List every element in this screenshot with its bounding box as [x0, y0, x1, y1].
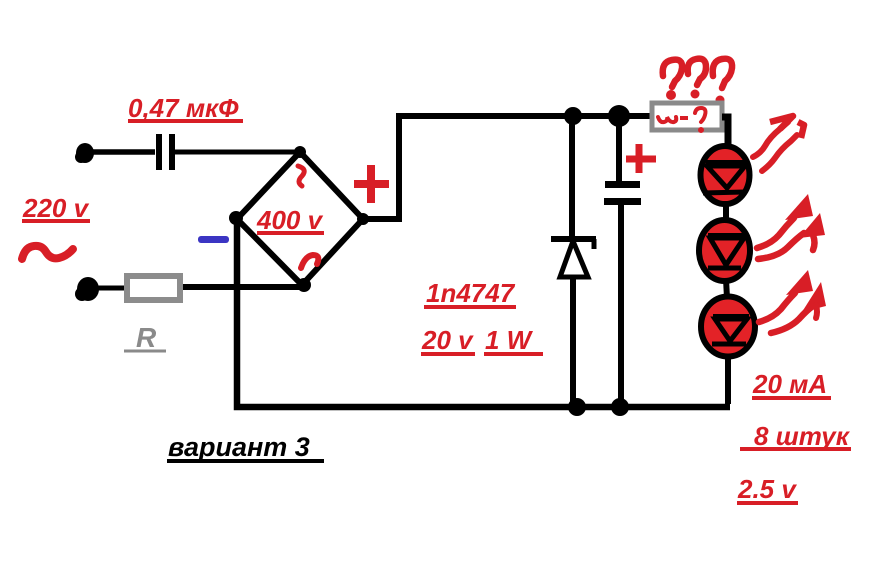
light arrows of D2	[757, 194, 825, 259]
junction node cap top	[608, 105, 630, 127]
svg-text:2.5 v: 2.5 v	[737, 474, 797, 504]
capacitor C2	[604, 118, 641, 406]
light arrows of D1	[753, 116, 804, 171]
svg-text:20 мА: 20 мА	[752, 369, 827, 399]
svg-text:1 W: 1 W	[485, 325, 534, 355]
svg-text:400 v: 400 v	[256, 205, 324, 235]
LED D1	[701, 146, 750, 204]
svg-text:220 v: 220 v	[22, 193, 90, 223]
wire D3 to bottom rail	[725, 355, 731, 404]
wire D1 to D2	[723, 202, 729, 222]
wire C1 to bridge top	[175, 150, 298, 155]
label ???	[663, 59, 732, 105]
zener diode 1n4747	[551, 118, 596, 406]
bridge corner node bottom	[297, 278, 311, 292]
light arrows of D3	[759, 270, 826, 333]
svg-text:0,47 мкФ: 0,47 мкФ	[128, 93, 239, 123]
wire terminal to C1	[86, 149, 155, 155]
label 220 v	[22, 193, 90, 223]
label 0,47 мкФ	[128, 93, 243, 123]
LED D3	[701, 297, 755, 357]
LED D2	[699, 220, 750, 281]
svg-text:R: R	[136, 322, 157, 353]
unknown resistor box	[652, 103, 722, 130]
svg-text:вариант 3: вариант 3	[168, 432, 310, 462]
terminal upper-left	[75, 143, 94, 163]
AC tilde symbol	[22, 246, 73, 259]
wire D2 to D3	[726, 279, 727, 298]
resistor R body	[127, 276, 180, 300]
minus sign of bridge	[198, 236, 229, 243]
squiggle bottom of bridge	[301, 255, 318, 268]
svg-text:8 штук: 8 штук	[754, 421, 851, 451]
wire box to LED1	[722, 117, 728, 148]
label 20 мА	[752, 369, 831, 399]
wire R to bridge bottom	[183, 284, 306, 290]
bridge corner node left	[229, 211, 243, 225]
svg-text:20 v: 20 v	[421, 325, 474, 355]
plus sign of C2	[626, 144, 656, 173]
svg-text:1n4747: 1n4747	[426, 278, 516, 308]
bridge corner node top	[294, 146, 306, 158]
label 2.5 v	[737, 474, 798, 504]
junction node zener bottom	[568, 398, 586, 416]
wire terminal to R	[90, 286, 126, 291]
junction node cap bottom	[611, 398, 629, 416]
scribble w - ? inside box	[658, 108, 706, 133]
plus sign of bridge	[354, 165, 389, 203]
label 20 v 1 W	[421, 325, 543, 355]
label 400 v	[256, 205, 324, 235]
label R	[124, 322, 166, 353]
squiggle top of bridge	[298, 166, 304, 186]
label 8 штук	[740, 421, 851, 451]
bridge corner node right	[357, 213, 369, 225]
terminal lower-left	[75, 277, 99, 301]
bridge rectifier B1	[237, 152, 363, 285]
capacitor C1	[156, 134, 175, 170]
wire bridge plus to top rail	[363, 116, 652, 219]
label 1n4747	[424, 278, 516, 308]
label вариант 3	[167, 432, 324, 462]
junction node zener top	[564, 107, 582, 125]
bottom rail	[237, 219, 730, 407]
